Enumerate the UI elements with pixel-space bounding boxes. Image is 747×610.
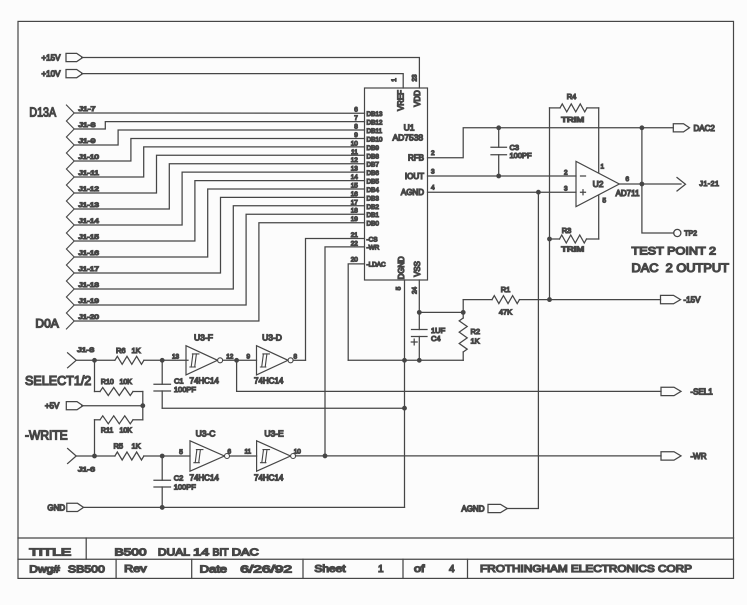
svg-text:J1-16: J1-16: [79, 250, 100, 257]
svg-text:74HC14: 74HC14: [190, 473, 220, 482]
pin label DB6 pin 13: [351, 166, 380, 178]
svg-text:+10V: +10V: [42, 70, 62, 79]
wire J1-13 to DB7 pin 12: [74, 164, 364, 209]
ground flag GND: [47, 503, 83, 512]
pin label DB1 pin 18: [351, 208, 380, 220]
svg-text:-SEL1: -SEL1: [691, 387, 714, 396]
svg-text:19: 19: [351, 216, 359, 223]
svg-text:3: 3: [431, 169, 435, 176]
svg-text:IOUT: IOUT: [405, 172, 424, 181]
svg-text:11: 11: [351, 149, 358, 156]
svg-text:12: 12: [351, 157, 359, 164]
wire VSS pin 24 to node: [418, 280, 464, 314]
svg-text:1K: 1K: [132, 442, 141, 451]
svg-text:VDD: VDD: [413, 90, 422, 107]
svg-text:TEST POINT 2: TEST POINT 2: [632, 246, 717, 258]
svg-text:J1-9: J1-9: [79, 138, 96, 145]
svg-text:10K: 10K: [120, 428, 133, 435]
svg-text:17: 17: [351, 199, 359, 206]
svg-text:TP2: TP2: [684, 231, 697, 238]
resistor R10 10K: [95, 360, 143, 405]
ground flag AGND: [461, 504, 507, 513]
svg-text:74HC14: 74HC14: [254, 377, 284, 386]
svg-text:2: 2: [431, 150, 435, 157]
wire +15V to VDD pin 23: [82, 58, 420, 89]
svg-text:RFB: RFB: [408, 154, 424, 163]
svg-text:AGND: AGND: [401, 188, 424, 197]
node label DAC 2 OUTPUT: [632, 263, 730, 275]
svg-text:DGND: DGND: [397, 256, 406, 279]
svg-text:J1-10: J1-10: [79, 154, 100, 161]
svg-text:9: 9: [247, 353, 251, 360]
pin label AGND pin 4: [401, 185, 435, 198]
op-amp U2 AD711: [564, 161, 640, 206]
svg-text:9: 9: [354, 132, 358, 139]
power flag DAC2: [673, 124, 715, 133]
connector J1 bus chevrons J1-7..J1-20: [66, 105, 74, 329]
pin label DB13 pin 6: [354, 107, 383, 119]
wire J1-12 to DB8 pin 11: [74, 155, 364, 193]
transistor U3-D schmitt inverter 74HC14: [254, 333, 298, 386]
svg-text:J1-14: J1-14: [79, 218, 100, 225]
svg-text:-WR: -WR: [691, 452, 707, 461]
pin label DB0 pin 19: [351, 216, 380, 228]
wire trim rail left (R4/R3 to -15V): [548, 108, 552, 300]
svg-text:D13A: D13A: [29, 105, 56, 120]
svg-text:of: of: [414, 564, 425, 575]
svg-text:6: 6: [354, 107, 358, 114]
svg-text:J1-12: J1-12: [79, 186, 100, 193]
svg-text:J1-21: J1-21: [699, 179, 719, 188]
svg-text:U1: U1: [404, 122, 415, 132]
svg-text:13: 13: [351, 166, 359, 173]
svg-text:11: 11: [244, 448, 251, 455]
power flag -WR: [661, 452, 707, 461]
pin label VSS (pin 24): [412, 261, 422, 294]
wire DGND rail (LDAC / C4 / R2 bottoms): [348, 359, 463, 361]
svg-text:1K: 1K: [132, 346, 141, 355]
wire trim rail right to pin 5: [598, 196, 600, 239]
wire J1-8 to DB12 pin 7: [74, 122, 364, 129]
svg-text:TRIM: TRIM: [561, 247, 584, 254]
svg-text:74HC14: 74HC14: [254, 473, 284, 482]
svg-text:DB13: DB13: [367, 111, 383, 118]
wire C1 bottom to DGND: [162, 407, 404, 409]
wire J1-8 to R6: [76, 359, 115, 363]
svg-text:R5: R5: [114, 442, 124, 451]
transistor U3-C schmitt inverter 74HC14: [174, 429, 232, 492]
wire U2 output to J1-21: [619, 182, 681, 186]
svg-text:-CS: -CS: [367, 236, 378, 243]
svg-text:AD711: AD711: [616, 189, 640, 198]
svg-text:10K: 10K: [120, 379, 133, 386]
svg-text:16: 16: [351, 191, 359, 198]
svg-text:R10: R10: [101, 379, 114, 386]
svg-text:+15V: +15V: [42, 54, 62, 63]
power flag +10V: [42, 70, 83, 79]
svg-text:14: 14: [193, 548, 210, 559]
svg-text:J1-13: J1-13: [79, 202, 100, 209]
svg-text:10: 10: [294, 448, 302, 455]
svg-text:DB1: DB1: [367, 212, 380, 219]
svg-text:+5V: +5V: [45, 402, 60, 411]
wire U3-C output to U3-E input: [230, 448, 257, 456]
svg-text:B500: B500: [115, 548, 148, 559]
resistor R4 TRIM: [550, 92, 599, 124]
wire J1-17 to DB3 pin 16: [74, 197, 364, 273]
svg-text:-LDAC: -LDAC: [367, 262, 387, 269]
wire J1-10 to DB10 pin 9: [74, 139, 364, 162]
svg-text:7: 7: [354, 115, 358, 122]
svg-text:18: 18: [351, 208, 359, 215]
svg-text:R6: R6: [116, 346, 126, 355]
wire DGND pin 5 down to GND rail: [403, 280, 407, 507]
svg-text:12: 12: [226, 353, 234, 360]
wire J1-6 to R5: [76, 454, 115, 458]
capacitor C2 100PF: [154, 456, 171, 509]
svg-text:-15V: -15V: [684, 296, 702, 305]
power flag +5V: [45, 402, 83, 411]
pin label -LDAC pin 20: [351, 256, 386, 268]
svg-text:DB9: DB9: [367, 145, 380, 152]
svg-text:20: 20: [351, 256, 359, 263]
resistor R2 1K: [459, 300, 480, 361]
wire AGND node down to AGND flag: [507, 192, 538, 508]
wire IOUT pin 3 to U2 inverting input: [428, 175, 577, 177]
svg-text:DB3: DB3: [367, 195, 380, 202]
svg-text:13: 13: [172, 353, 180, 360]
node label TEST POINT 2: [632, 246, 717, 258]
power flag +15V: [42, 53, 83, 62]
svg-text:D0A: D0A: [35, 316, 58, 330]
wire -LDAC pin 20 to DGND rail: [348, 264, 364, 360]
pin label -CS pin 21: [351, 232, 378, 243]
svg-text:DB8: DB8: [367, 153, 380, 160]
wire trim rail right to pin 1: [598, 108, 600, 172]
transistor U3-E schmitt inverter 74HC14: [254, 429, 301, 483]
node D0A bus label: [35, 316, 58, 330]
svg-text:1: 1: [391, 78, 398, 82]
svg-text:Rev: Rev: [124, 564, 147, 575]
svg-text:TITLE: TITLE: [29, 548, 71, 559]
svg-text:DB4: DB4: [367, 187, 380, 194]
wire -WR pin 22 to U3-E output line: [325, 247, 365, 456]
pin label DB12 pin 7: [354, 115, 383, 127]
svg-text:J1-7: J1-7: [79, 106, 96, 113]
svg-text:J1-6: J1-6: [78, 467, 95, 474]
svg-text:47K: 47K: [499, 308, 512, 317]
resistor R1 47K: [463, 285, 519, 317]
svg-text:1: 1: [601, 164, 605, 171]
svg-text:23: 23: [412, 74, 419, 82]
op-amp U1 AD7538 DAC IC body: [365, 88, 428, 280]
resistor R3 TRIM: [550, 226, 599, 254]
svg-text:5: 5: [396, 286, 403, 290]
wire -CS pin 21 to U3-D output: [306, 239, 365, 361]
pin label IOUT pin 3: [405, 169, 435, 182]
wire J1-11 to DB9 pin 10: [74, 147, 364, 177]
svg-text:J1-18: J1-18: [79, 282, 100, 289]
node label -WRITE: [25, 428, 68, 442]
pin label DB11 pin 8: [354, 124, 382, 136]
svg-text:DB2: DB2: [367, 204, 380, 211]
wire U3-E output to -WR flag: [296, 454, 662, 458]
svg-text:8: 8: [294, 353, 298, 360]
node D13A bus label: [29, 105, 56, 120]
wire J1-20 to DB0 pin 19: [74, 223, 364, 321]
svg-text:DB10: DB10: [367, 137, 383, 144]
wire -SEL1 from U3-D input junction to flag: [237, 360, 661, 391]
svg-text:3: 3: [564, 186, 568, 193]
svg-text:DB7: DB7: [367, 162, 380, 169]
svg-text:SELECT1/2: SELECT1/2: [25, 374, 91, 388]
svg-text:AGND: AGND: [461, 505, 484, 514]
svg-text:FROTHINGHAM ELECTRONICS CORP: FROTHINGHAM ELECTRONICS CORP: [480, 564, 692, 575]
svg-text:J1-19: J1-19: [79, 298, 100, 305]
svg-text:6: 6: [228, 448, 232, 455]
svg-text:-WR: -WR: [367, 245, 380, 252]
svg-text:U3-C: U3-C: [196, 429, 216, 439]
pin label VDD (pin 23): [412, 74, 422, 107]
svg-text:VREF: VREF: [396, 90, 405, 111]
wire J1-18 to DB2 pin 17: [74, 206, 364, 289]
svg-text:J1-8: J1-8: [79, 122, 96, 129]
svg-text:J1-20: J1-20: [79, 314, 100, 321]
wire U3-D output to -CS riser: [293, 359, 305, 361]
svg-text:Date: Date: [200, 564, 228, 575]
wire J1-16 to DB4 pin 15: [74, 189, 364, 257]
svg-text:-WRITE: -WRITE: [25, 428, 68, 442]
svg-text:24: 24: [412, 287, 419, 295]
svg-text:J1-8: J1-8: [77, 347, 94, 354]
svg-text:J1-17: J1-17: [79, 266, 100, 273]
wire R5 to U3-C input pin 5: [144, 454, 190, 458]
svg-text:5: 5: [179, 449, 183, 456]
pin label DGND (pin 5): [396, 256, 407, 290]
pin label DB8 pin 11: [351, 149, 379, 161]
resistor R5 1K: [114, 442, 144, 460]
wire J1-9 to DB11 pin 8: [74, 130, 364, 145]
pin label VREF (pin 1): [391, 78, 406, 111]
svg-text:10: 10: [351, 140, 359, 147]
svg-text:Dwg#: Dwg#: [29, 564, 60, 575]
svg-text:U3-E: U3-E: [264, 429, 284, 439]
svg-text:4: 4: [431, 185, 435, 192]
transistor U3-F schmitt inverter 74HC14: [172, 333, 234, 395]
svg-text:DB12: DB12: [367, 120, 383, 127]
capacitor C1 100PF: [154, 360, 171, 408]
svg-text:100PF: 100PF: [174, 385, 197, 394]
pin label DB2 pin 17: [351, 199, 380, 211]
resistor R11 10K: [95, 406, 143, 456]
svg-text:R3: R3: [562, 226, 572, 235]
wire +5V to R10/R11 junction: [82, 404, 145, 408]
svg-text:Sheet: Sheet: [314, 564, 345, 575]
svg-text:C2: C2: [174, 473, 184, 482]
svg-text:DAC2: DAC2: [694, 124, 716, 133]
svg-text:1: 1: [378, 564, 384, 575]
svg-text:DB11: DB11: [367, 128, 383, 135]
svg-text:VSS: VSS: [413, 261, 422, 277]
pin label DB7 pin 12: [351, 157, 380, 169]
svg-text:DAC 2 OUTPUT: DAC 2 OUTPUT: [632, 263, 730, 275]
wire J1-14 to DB6 pin 13: [74, 172, 364, 225]
svg-text:TRIM: TRIM: [561, 117, 584, 124]
connector J1-6 chevron: [68, 449, 96, 474]
svg-text:R11: R11: [101, 428, 113, 435]
svg-text:2: 2: [564, 170, 568, 177]
connector J1-21 arrow: [677, 178, 719, 192]
svg-text:AD7538: AD7538: [392, 133, 423, 143]
wire R6 to U3-F input pin 13: [144, 359, 188, 363]
wire U3-F output to U3-D input: [223, 353, 257, 362]
wire RFB pin 2 to feedback/DAC2 line: [428, 126, 674, 158]
svg-text:DB6: DB6: [367, 170, 380, 177]
svg-text:DB5: DB5: [367, 179, 380, 186]
connector J1-8 chevron: [68, 347, 95, 368]
wire R1 to -15V flag: [520, 298, 661, 302]
svg-text:5: 5: [603, 198, 607, 205]
svg-text:14: 14: [351, 174, 359, 181]
svg-text:DAC: DAC: [232, 548, 259, 559]
svg-text:U2: U2: [593, 179, 604, 189]
pin label -WR pin 22: [351, 240, 380, 251]
wire J1-19 to DB1 pin 18: [74, 214, 364, 305]
power flag -SEL1: [661, 387, 713, 396]
svg-text:4: 4: [449, 564, 455, 575]
wire J1-15 to DB5 pin 14: [74, 181, 364, 241]
svg-text:8: 8: [354, 124, 358, 131]
capacitor C3 100PF: [491, 128, 532, 178]
svg-text:R1: R1: [501, 285, 511, 294]
svg-text:J1-15: J1-15: [79, 234, 100, 241]
svg-text:R2: R2: [471, 327, 481, 336]
svg-text:GND: GND: [47, 503, 65, 512]
node label SELECT1/2: [25, 374, 91, 388]
svg-text:U3-F: U3-F: [194, 333, 213, 343]
wire J1-7 to DB13 pin 6: [74, 106, 364, 113]
pin label DB9 pin 10: [351, 140, 380, 152]
svg-text:DUAL: DUAL: [158, 548, 191, 559]
svg-text:15: 15: [351, 183, 359, 190]
test point TP2: [674, 229, 697, 237]
svg-text:100PF: 100PF: [174, 483, 197, 492]
svg-text:6/26/92: 6/26/92: [240, 564, 292, 575]
svg-text:U3-D: U3-D: [262, 333, 282, 343]
power flag -15V: [661, 295, 702, 304]
svg-text:SB500: SB500: [68, 564, 105, 575]
resistor R6 1K: [115, 346, 144, 364]
pin label RFB pin 2: [408, 150, 435, 163]
pin label DB3 pin 16: [351, 191, 380, 203]
pin label DB4 pin 15: [351, 183, 380, 195]
pin label DB5 pin 14: [351, 174, 380, 186]
pin label DB10 pin 9: [354, 132, 383, 144]
wire output node down to TP2: [642, 128, 674, 233]
wire GND rail: [84, 506, 405, 508]
svg-text:C4: C4: [431, 334, 441, 343]
capacitor C4 1UF (electrolytic): [411, 312, 445, 362]
wire +10V to VREF pin 1: [82, 74, 404, 88]
svg-text:DB0: DB0: [367, 221, 380, 228]
svg-text:6: 6: [626, 176, 630, 183]
wire AGND pin 4 to U2 non-inverting input: [428, 190, 577, 194]
svg-text:1K: 1K: [471, 337, 480, 346]
svg-text:J1-11: J1-11: [79, 170, 100, 177]
svg-text:BIT: BIT: [213, 548, 229, 559]
svg-text:R4: R4: [567, 92, 577, 101]
svg-text:100PF: 100PF: [510, 151, 533, 160]
